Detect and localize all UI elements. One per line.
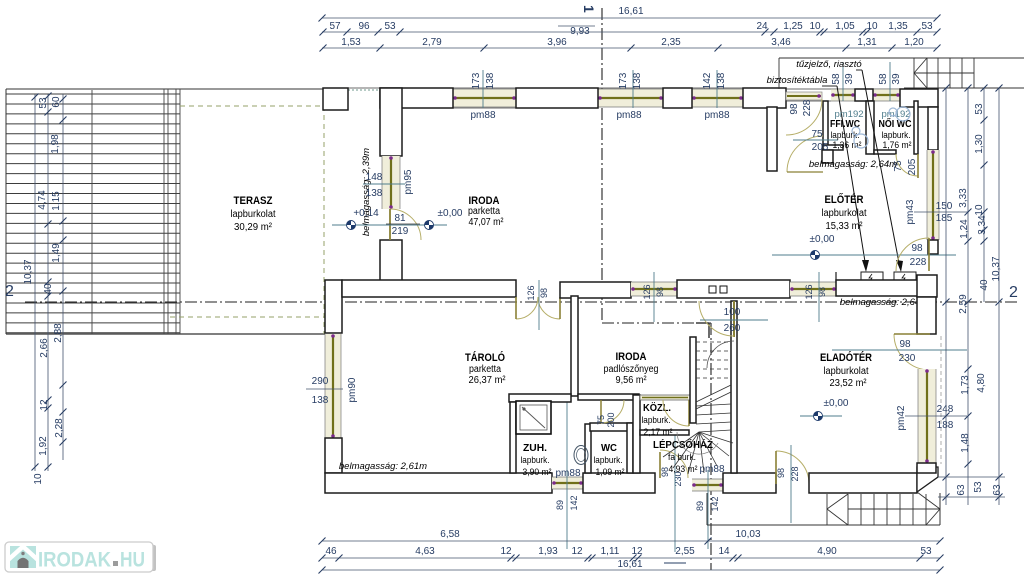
section line 1 vertical upper dash-dot: [601, 8, 603, 323]
svg-text:57: 57: [329, 21, 341, 32]
terrace hatched deck: [6, 93, 180, 95]
svg-text:60: 60: [51, 96, 62, 108]
bottom wall left segment: [325, 473, 552, 493]
svg-text:228: 228: [802, 99, 813, 116]
window pm88 173/138 first: [453, 89, 516, 107]
kozl door arc: [663, 400, 689, 426]
entry door eladotér 98/228: [776, 451, 809, 484]
svg-text:TÁROLÓ: TÁROLÓ: [465, 351, 505, 364]
svg-text:40: 40: [43, 283, 54, 295]
svg-text:81: 81: [394, 213, 406, 224]
top wall right band: [786, 88, 914, 90]
wall block top B: [516, 88, 598, 108]
wall below door west: [380, 240, 402, 282]
wc right wall: [627, 423, 633, 473]
svg-text:parketta: parketta: [469, 364, 501, 375]
svg-text:4,74: 4,74: [37, 190, 48, 210]
mid window 126/98: [631, 282, 677, 296]
dim row bottom total 16,61: [322, 569, 940, 571]
svg-text:1,30: 1,30: [974, 134, 985, 154]
svg-text:230: 230: [899, 353, 916, 364]
svg-text:138: 138: [366, 188, 383, 199]
svg-text:1,25: 1,25: [783, 21, 803, 32]
svg-text:53: 53: [920, 546, 932, 557]
bottom window lepcso 89/142: [692, 479, 723, 491]
stair shaft right wall: [731, 301, 737, 473]
right dim short horizontals: [938, 476, 1005, 478]
wall pillar top-left corner: [323, 88, 348, 110]
svg-text:12: 12: [571, 546, 583, 557]
svg-text:pm43: pm43: [905, 199, 916, 224]
svg-text:142: 142: [710, 496, 720, 511]
bottom wall segment right of lepcso window: [723, 473, 776, 493]
bottom wall right segment: [809, 473, 917, 493]
svg-text:tűzjelző, riasztó: tűzjelző, riasztó: [796, 59, 862, 70]
svg-text:15,33 m²: 15,33 m²: [826, 221, 864, 232]
svg-text:188: 188: [937, 420, 954, 431]
stair treads lower solid: [696, 404, 731, 406]
section line 1 jog: [602, 322, 711, 324]
svg-text:26,37 m²: 26,37 m²: [469, 375, 507, 386]
svg-text:150: 150: [936, 201, 953, 212]
dim row bottom detailed: [322, 557, 940, 559]
wc toilet: [574, 446, 588, 465]
mid wall segment C: [677, 280, 790, 298]
svg-text:126: 126: [526, 285, 536, 300]
svg-text:1,15: 1,15: [51, 191, 62, 211]
window ffi wc 58/39: [831, 89, 855, 101]
entry box 2 with bolt: [894, 272, 916, 282]
svg-text:1,05: 1,05: [835, 21, 855, 32]
right dim column C: [983, 88, 985, 302]
svg-text:16,61: 16,61: [617, 559, 642, 570]
svg-text:IRODA: IRODA: [616, 351, 647, 363]
svg-text:12: 12: [500, 546, 512, 557]
stair direction cross: [914, 58, 927, 73]
svg-text:185: 185: [936, 213, 953, 224]
svg-text:24: 24: [756, 21, 768, 32]
section marker 1 bottom underline: [664, 562, 686, 564]
svg-text:1,20: 1,20: [904, 37, 924, 48]
svg-text:2,79: 2,79: [422, 37, 442, 48]
wall block top A: [380, 88, 453, 108]
svg-text:14: 14: [718, 546, 730, 557]
svg-text:98: 98: [539, 288, 549, 298]
svg-text:belmagasság: 2,64m: belmagasság: 2,64m: [809, 159, 897, 170]
svg-text:1,98: 1,98: [50, 134, 61, 154]
ffi wc door arc: [787, 136, 823, 172]
glass band pillar to wall: [348, 89, 380, 91]
left dim column A: [34, 94, 36, 471]
svg-text:1,49: 1,49: [51, 243, 62, 263]
svg-text:9,93: 9,93: [570, 26, 590, 37]
elotér bottom wall: [836, 272, 919, 286]
svg-text:53: 53: [921, 21, 933, 32]
socket boxes on wall: [709, 286, 716, 293]
noi wc door arc: [896, 154, 918, 176]
svg-text:pm88: pm88: [616, 110, 641, 121]
svg-text:219: 219: [392, 226, 409, 237]
wall block wc middle: [855, 89, 873, 101]
svg-text:2: 2: [5, 283, 14, 300]
svg-text:75: 75: [811, 129, 823, 140]
watermark house icon: [10, 546, 36, 568]
svg-text:pm95: pm95: [403, 169, 414, 194]
taroló west wall lower: [325, 438, 342, 473]
svg-text:pm192: pm192: [834, 109, 863, 120]
svg-text:205: 205: [907, 158, 918, 175]
svg-text:WC: WC: [601, 443, 617, 454]
svg-text:4,80: 4,80: [976, 373, 987, 393]
bottom-right corner chamfer: [917, 467, 938, 492]
svg-text:1,11: 1,11: [601, 546, 620, 557]
svg-text:KÖZL.: KÖZL.: [643, 401, 671, 414]
svg-text:173: 173: [618, 72, 629, 89]
noi wc bottom wall: [874, 150, 896, 154]
svg-text:lapburkolat: lapburkolat: [822, 208, 867, 219]
svg-text:1: 1: [581, 5, 597, 13]
terrace edge double lines: [163, 89, 165, 334]
porch outline bottom: [706, 493, 708, 525]
svg-text:ZUH.: ZUH.: [523, 443, 547, 454]
svg-text:89: 89: [555, 500, 565, 510]
level symbol iroda 0,00: [425, 221, 434, 230]
svg-text:40: 40: [979, 279, 990, 291]
svg-text:63: 63: [992, 484, 1003, 496]
svg-text:58: 58: [831, 73, 842, 85]
svg-text:±0,00: ±0,00: [810, 234, 835, 245]
dim row bottom 6,58 10,03: [322, 540, 940, 542]
wc top wall: [590, 423, 637, 431]
right dim column D: [998, 88, 1000, 505]
noi wc right wall: [914, 101, 918, 154]
svg-text:138: 138: [485, 72, 496, 89]
svg-text:2: 2: [1009, 284, 1018, 301]
ffi wc bottom wall: [823, 145, 843, 150]
svg-text:248: 248: [937, 404, 954, 415]
right dim column A: [945, 88, 947, 505]
svg-text:9,56 m²: 9,56 m²: [616, 375, 648, 386]
svg-text:12: 12: [39, 399, 50, 411]
svg-text:205: 205: [812, 142, 829, 153]
stair winder steps fan: [699, 430, 731, 432]
svg-text:2,88: 2,88: [53, 323, 64, 343]
stair shaft door arc: [699, 301, 734, 336]
entry box 1 with bolt: [861, 272, 883, 282]
wall right outer upper: [928, 107, 938, 150]
svg-text:89: 89: [695, 501, 705, 511]
svg-text:±0,00: ±0,00: [438, 208, 463, 219]
iroda east wall T-stem: [767, 107, 777, 171]
watermark irodak.hu: [5, 542, 156, 572]
level symbol terrace +0,14: [332, 224, 447, 226]
svg-text:2,35: 2,35: [661, 37, 681, 48]
stair treads upper dashed: [696, 341, 731, 343]
leader arrow 1 to entry box: [837, 86, 866, 268]
svg-text:1,53: 1,53: [341, 37, 361, 48]
iroda9 bottom wall: [578, 394, 639, 400]
svg-text:pm88: pm88: [704, 110, 729, 121]
svg-text:10,37: 10,37: [991, 256, 1002, 281]
wc window dims 58 39 pair2: [889, 62, 891, 101]
svg-text:±0,00: ±0,00: [824, 398, 849, 409]
svg-text:260: 260: [724, 323, 741, 334]
terrace dashed line lower: [170, 316, 324, 318]
kozl top glazed wall: [640, 395, 690, 400]
mid wall corner block: [325, 280, 342, 333]
svg-text:parketta: parketta: [468, 206, 500, 217]
svg-text:2,28: 2,28: [54, 418, 65, 438]
right dim column B: [967, 88, 969, 505]
svg-text:53: 53: [974, 103, 985, 115]
svg-text:98: 98: [655, 287, 665, 297]
svg-text:98: 98: [776, 468, 786, 478]
mid wall segment B: [560, 282, 631, 298]
svg-text:47,07 m²: 47,07 m²: [469, 217, 505, 228]
svg-text:4,63: 4,63: [415, 546, 435, 557]
svg-text:LÉPCSŐHÁZ: LÉPCSŐHÁZ: [653, 438, 714, 451]
svg-text:10: 10: [809, 21, 821, 32]
svg-text:53: 53: [973, 481, 984, 493]
stairs top-right: [913, 58, 915, 88]
svg-text:142: 142: [702, 72, 713, 89]
svg-text:1,93: 1,93: [538, 546, 558, 557]
svg-text:98: 98: [911, 243, 923, 254]
svg-text:3,33: 3,33: [958, 188, 969, 208]
svg-text:10: 10: [33, 473, 44, 485]
svg-text:1,35: 1,35: [888, 21, 908, 32]
wall block top C: [663, 88, 692, 108]
svg-text:39: 39: [844, 73, 855, 85]
porch steps bottom-right: [847, 494, 849, 525]
svg-text:ELADÓTÉR: ELADÓTÉR: [820, 351, 872, 364]
kozl bottom wall: [640, 430, 689, 435]
svg-text:98: 98: [817, 287, 827, 297]
svg-text:6,58: 6,58: [440, 529, 460, 540]
svg-text:148: 148: [366, 172, 383, 183]
svg-text:HU: HU: [120, 549, 145, 572]
svg-text:FFI.WC: FFI.WC: [830, 119, 860, 130]
shower tray: [516, 401, 551, 434]
svg-text:+0,14: +0,14: [353, 208, 379, 219]
svg-text:1,31: 1,31: [857, 37, 877, 48]
zuh left wall: [510, 402, 516, 473]
window pm95 148/138 vertical: [382, 156, 400, 209]
svg-text:30,29 m²: 30,29 m²: [234, 222, 273, 233]
svg-text:1,92: 1,92: [38, 436, 49, 456]
svg-text:10: 10: [866, 21, 878, 32]
section line 1 vertical lower dash-dot: [710, 323, 712, 570]
porch boundary top-right: [779, 57, 1024, 59]
door 81/219 arc: [390, 209, 421, 240]
eladotér right door 98/230: [894, 334, 930, 370]
svg-text:63: 63: [956, 484, 967, 496]
svg-text:lapburk.: lapburk.: [521, 455, 550, 466]
svg-text:2,59: 2,59: [958, 294, 969, 314]
svg-text:3,96: 3,96: [547, 37, 567, 48]
stair break line double: [696, 385, 731, 402]
zuh top wall: [509, 394, 571, 402]
window dim 290 138 pm90: [306, 388, 343, 390]
svg-text:fa burk.: fa burk.: [668, 452, 696, 463]
svg-text:10: 10: [974, 204, 985, 216]
svg-text:39: 39: [891, 73, 902, 85]
svg-text:4,90: 4,90: [817, 546, 837, 557]
mid wall segment A: [342, 280, 516, 297]
svg-text:IRODAK: IRODAK: [38, 549, 111, 572]
svg-text:228: 228: [910, 257, 927, 268]
wc basin circles noi: [896, 107, 910, 121]
svg-text:lapburkolat: lapburkolat: [231, 209, 276, 220]
svg-text:75: 75: [596, 415, 606, 425]
svg-text:pm88: pm88: [555, 468, 580, 479]
double door 126/98 arcs: [516, 297, 538, 319]
wc basin circles ffi: [854, 134, 868, 148]
svg-text:100: 100: [724, 307, 741, 318]
dim row total 16,61 top: [322, 17, 937, 19]
window dim pm88 second: [632, 70, 634, 108]
kozl left wall: [633, 395, 640, 473]
svg-text:16,61: 16,61: [618, 6, 643, 17]
terrace inner divider: [91, 90, 93, 334]
svg-text:126: 126: [804, 284, 814, 299]
svg-text:2,66: 2,66: [39, 338, 50, 358]
svg-text:1,48: 1,48: [960, 433, 971, 453]
double door labels 126 98: [538, 280, 540, 330]
svg-text:96: 96: [358, 21, 370, 32]
elotér corner wall block: [917, 275, 937, 297]
window pm43 150/185 vertical right: [927, 150, 939, 240]
svg-text:12: 12: [631, 546, 643, 557]
svg-text:3,90 m²: 3,90 m²: [523, 467, 552, 478]
dim row 3: [322, 47, 937, 49]
window dim 148 138 pm95: [363, 183, 405, 185]
window pm42 248/188: [918, 369, 936, 463]
svg-text:2,55: 2,55: [675, 546, 695, 557]
mid wall segment D elado top: [836, 280, 919, 296]
svg-text:138: 138: [312, 395, 329, 406]
svg-text:1,76 m²: 1,76 m²: [883, 140, 912, 151]
window pm90 290/138: [325, 334, 341, 438]
svg-text:pm42: pm42: [896, 405, 907, 430]
svg-text:53: 53: [384, 21, 396, 32]
lepcsohaz exit door 98/230: [660, 450, 688, 478]
svg-text:belmagasság: 2,64m: belmagasság: 2,64m: [840, 297, 928, 308]
svg-text:ELŐTÉR: ELŐTÉR: [825, 193, 864, 206]
porch step triangle: [827, 494, 848, 509]
ffi noi divider wall: [866, 101, 874, 154]
svg-text:58: 58: [878, 73, 889, 85]
svg-text:142: 142: [569, 495, 579, 510]
svg-text:3,46: 3,46: [771, 37, 791, 48]
wc window dims 58 39 pair1: [842, 62, 844, 101]
terrace dashed boundary top: [180, 105, 324, 107]
porch chamfer lines: [917, 492, 940, 509]
window pm88 142/138 third: [692, 89, 743, 107]
svg-text:1,36 m²: 1,36 m²: [833, 140, 862, 151]
dim row 2 left 57 96 53: [322, 31, 937, 33]
wall block wc right corner: [900, 89, 938, 107]
svg-text:1,09 m²: 1,09 m²: [596, 467, 625, 478]
eladotér right wall upper: [917, 297, 936, 334]
window pm88 second: [598, 89, 663, 107]
svg-text:200: 200: [606, 412, 616, 427]
svg-text:228: 228: [790, 466, 800, 481]
left dim column C: [62, 94, 64, 460]
stair shaft landing stub wall: [696, 322, 709, 324]
svg-text:TERASZ: TERASZ: [234, 195, 273, 207]
stair shaft door 100/260 flap: [733, 301, 735, 337]
svg-text:290: 290: [312, 376, 329, 387]
wall iroda west: [380, 88, 402, 156]
svg-text:10,37: 10,37: [23, 259, 34, 284]
svg-text:23,52 m²: 23,52 m²: [830, 378, 868, 389]
stair shaft left wall: [690, 337, 696, 423]
wc door 75/200: [601, 400, 624, 423]
bottom wall mid segment: [583, 473, 655, 493]
zuh-wc divider wall: [585, 424, 591, 473]
svg-text:pm88: pm88: [470, 110, 495, 121]
entry door elotér top-left leaf in wall: [786, 92, 822, 100]
svg-text:padlószőnyeg: padlószőnyeg: [604, 364, 659, 375]
svg-text:4,93 m²: 4,93 m²: [669, 464, 698, 475]
terrace outline: [6, 88, 180, 90]
stair up-swing dashed arc: [707, 341, 734, 368]
elotér right door 98 228: [896, 238, 929, 271]
entry door elotér top-left arc: [786, 99, 822, 135]
wall right below pm43: [928, 240, 938, 254]
terrace dashed boundary right: [323, 106, 325, 334]
window noi wc 58/39: [873, 89, 900, 101]
bottom window zuh 89/142: [552, 477, 583, 489]
top wall edge lines: [330, 87, 786, 89]
window dim 248 188 pm42: [905, 415, 967, 417]
window dim 173 138 pm88 first: [482, 70, 484, 108]
dim row 2 right ticks: [762, 29, 769, 36]
wall block top D: [743, 88, 786, 108]
mid window 126/98 second: [790, 282, 836, 296]
svg-text:138: 138: [716, 72, 727, 89]
roof overhang dashed right: [940, 336, 942, 464]
svg-text:46: 46: [325, 546, 337, 557]
ffi wc left wall: [823, 101, 828, 150]
section line 2 horizontal dash-dot: [25, 301, 1020, 303]
svg-text:173: 173: [471, 72, 482, 89]
svg-text:lapburk.: lapburk.: [594, 455, 623, 466]
left dim column B: [47, 94, 49, 471]
svg-text:belmagasság: 2,61m: belmagasság: 2,61m: [339, 461, 427, 472]
svg-text:lapburk.: lapburk.: [642, 415, 671, 426]
svg-text:53: 53: [38, 97, 49, 109]
window dim 150 185 pm43: [914, 211, 968, 213]
svg-text:3,34: 3,34: [977, 215, 988, 235]
wall taroló-iroda divider: [571, 296, 578, 396]
leader arrow 2 to entry box: [862, 70, 900, 268]
ffi wc corner wall step: [822, 150, 833, 163]
svg-text:2,17 m²: 2,17 m²: [644, 427, 673, 438]
svg-text:pm90: pm90: [347, 377, 358, 402]
window dim 142 138 pm88 third: [716, 70, 718, 108]
svg-text:138: 138: [632, 72, 643, 89]
svg-text:126: 126: [642, 284, 652, 299]
svg-text:lapburkolat: lapburkolat: [824, 366, 869, 377]
svg-text:1,73: 1,73: [960, 375, 971, 395]
svg-text:10,03: 10,03: [735, 529, 760, 540]
svg-text:biztosítéktábla: biztosítéktábla: [767, 75, 828, 86]
svg-text:98: 98: [789, 103, 800, 115]
svg-text:98: 98: [899, 339, 911, 350]
stair winder guide arc: [677, 432, 718, 454]
